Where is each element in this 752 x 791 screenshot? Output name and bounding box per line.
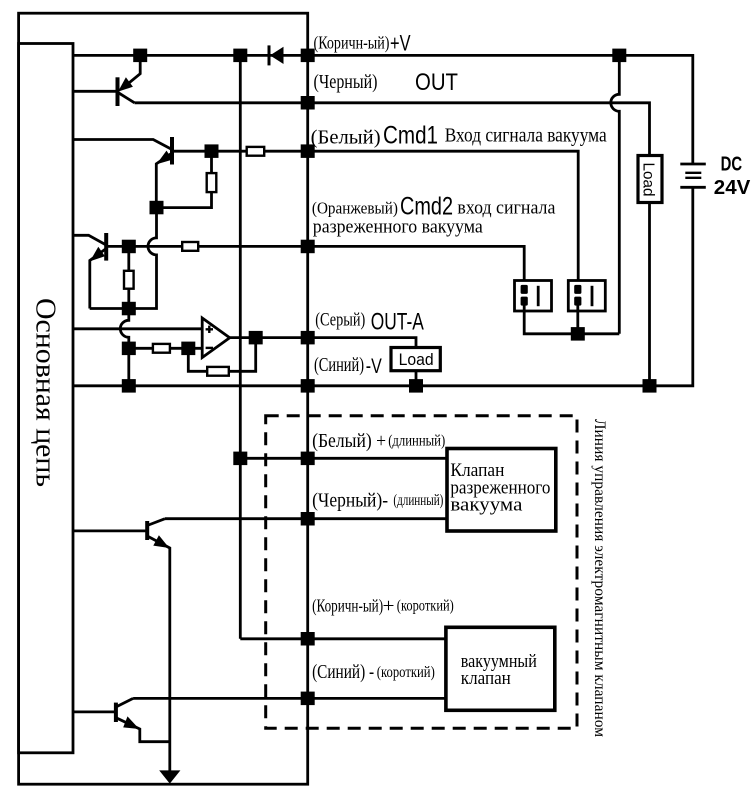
svg-text:(длинный): (длинный) (393, 492, 443, 509)
transistor Q2 (73, 137, 173, 208)
node OUT at frame edge (301, 96, 315, 110)
node OUT-A feedback (249, 331, 263, 345)
wire switch bottoms (524, 302, 619, 334)
svg-text:(Оранжевый): (Оранжевый) (312, 199, 398, 218)
main circuit box (19, 44, 73, 753)
node Коричн+ at frame edge (301, 632, 315, 646)
switch S1 (515, 281, 552, 312)
node link Q2 emitter (150, 201, 164, 215)
resistor R5 on minus input (153, 344, 170, 353)
svg-text:(короткий): (короткий) (377, 664, 435, 681)
svg-text:OUT-A: OUT-A (371, 309, 424, 336)
node OUT-A at frame edge (301, 331, 315, 345)
svg-text:(Синий): (Синий) (314, 354, 364, 376)
resistor R1 on Cmd1 (247, 147, 265, 156)
wire Q4 base (73, 711, 116, 714)
wire main riser B (239, 55, 242, 638)
resistor R6 feedback (207, 367, 229, 376)
node Белый+ at riser B (233, 452, 247, 466)
wire Q5 base (73, 530, 147, 533)
svg-text:24V: 24V (714, 177, 751, 199)
label (Серый) OUT-A (315, 309, 424, 336)
svg-text:Cmd1: Cmd1 (383, 122, 438, 150)
label (Белый)+(длинный) (312, 430, 445, 452)
node Cmd2 at Q3 base (122, 240, 136, 254)
svg-text:Load: Load (399, 351, 434, 369)
node Cmd1 at Q2 base (205, 144, 219, 158)
battery DC 24V (680, 164, 706, 187)
wire OUT (135, 103, 650, 156)
label (Коричн-ый)+V (314, 31, 411, 56)
label (Коричн-ый)+(короткий) (312, 595, 454, 617)
node Синий- at frame edge (301, 692, 315, 706)
label DC 24V (714, 154, 751, 200)
node -V at Load right (643, 379, 657, 393)
node -V at Load middle (409, 379, 423, 393)
diode D1 (269, 45, 284, 65)
load box Load (right) (638, 156, 662, 203)
node -V at frame edge (301, 379, 315, 393)
svg-text:(Белый): (Белый) (311, 127, 381, 149)
dashed box solenoid control (266, 416, 577, 728)
svg-text:-V: -V (366, 355, 382, 378)
valve box Клапан разреженного вакуума (447, 449, 556, 532)
node switch bottom (571, 327, 585, 341)
label (Синий)-V (314, 354, 382, 378)
svg-text:Load: Load (640, 163, 657, 197)
node Cmd2 at frame edge (301, 240, 315, 254)
wire Белый+ длинный (240, 457, 447, 460)
transistor Q3 (73, 233, 106, 309)
transistor Q4 (116, 698, 170, 741)
wire Cmd1 (172, 151, 578, 287)
wire riser with hop over op-amp input (120, 309, 129, 386)
node +V at Q1 emitter (133, 49, 147, 63)
transistor Q1 (118, 62, 141, 106)
svg-text:DC: DC (721, 154, 743, 176)
svg-text:(Коричн-ый): (Коричн-ый) (312, 595, 383, 615)
svg-text:(Серый): (Серый) (315, 310, 365, 331)
wire Коричн+ короткий (240, 637, 446, 640)
node minus wire left (122, 342, 136, 356)
svg-text:Линия управления электромагнит: Линия управления электромагнитным клапан… (591, 419, 608, 737)
resistor R3 on Cmd2 (182, 242, 198, 251)
node Черный- at frame edge (301, 512, 315, 526)
wire battery bottom to -V (73, 187, 693, 385)
switch S2 (568, 281, 605, 312)
wire +V (73, 55, 693, 164)
wire Синий- короткий (133, 697, 446, 700)
node emitter return (122, 302, 136, 316)
wire emitter link with hop (90, 208, 157, 309)
svg-text:+V: +V (390, 31, 411, 56)
svg-text:Вход сигнала вакуума: Вход сигнала вакуума (445, 126, 607, 147)
node +V at frame edge (301, 49, 315, 63)
svg-text:вход сигнала: вход сигнала (457, 198, 556, 219)
wire feedback (188, 338, 255, 372)
node minus wire right (181, 342, 195, 356)
svg-text:клапан: клапан (461, 668, 511, 689)
resistor R4 vertical below Q3 base (127, 246, 130, 308)
svg-text:(Коричн-ый): (Коричн-ый) (314, 33, 390, 53)
load box Load (middle) (391, 348, 440, 371)
valve box вакуумный клапан (446, 627, 555, 710)
wire Черный- длинный (165, 517, 447, 520)
label (Белый)Cmd1 ... (311, 122, 607, 150)
svg-text:(Черный)-: (Черный)- (312, 489, 388, 511)
wire switch riser with hop (611, 55, 619, 333)
transistor Q5 (147, 519, 170, 773)
label (Оранжевый)Cmd2 ... (312, 193, 556, 238)
node Cmd1 at frame edge (301, 144, 315, 158)
label (Черный) OUT (314, 69, 459, 96)
wire Load middle bottom (415, 371, 418, 386)
node +V at main riser B (233, 49, 247, 63)
svg-text:(короткий): (короткий) (397, 598, 454, 615)
svg-text:(Черный): (Черный) (314, 71, 378, 93)
svg-text:(длинный): (длинный) (388, 433, 445, 450)
svg-text:OUT: OUT (415, 69, 458, 96)
svg-text:Основная цепь: Основная цепь (30, 298, 61, 487)
label (Черный)-(длинный) (312, 489, 443, 511)
wire op-amp minus input (129, 347, 202, 350)
wire Cmd2 (106, 246, 524, 287)
op-amp U1 (202, 318, 230, 358)
label (Синий)-(короткий) (312, 661, 435, 683)
node -V left (122, 379, 136, 393)
svg-text:(Белый) +: (Белый) + (312, 430, 386, 452)
svg-text:+: + (383, 595, 395, 617)
svg-text:разреженного вакуума: разреженного вакуума (313, 217, 484, 238)
node Белый+ at frame edge (301, 452, 315, 466)
svg-text:(Синий) -: (Синий) - (312, 661, 374, 683)
wire Q1 base (73, 90, 118, 93)
wire op-amp plus input (73, 327, 202, 330)
node +V at switch riser (612, 49, 626, 63)
wire Load right bottom (648, 203, 651, 386)
wire OUT-A (230, 338, 416, 348)
outer frame box (19, 13, 308, 784)
svg-text:вакуума: вакуума (450, 495, 523, 516)
resistor R2 vertical below Q2 base (157, 151, 212, 207)
arrow down at drain (159, 770, 180, 783)
